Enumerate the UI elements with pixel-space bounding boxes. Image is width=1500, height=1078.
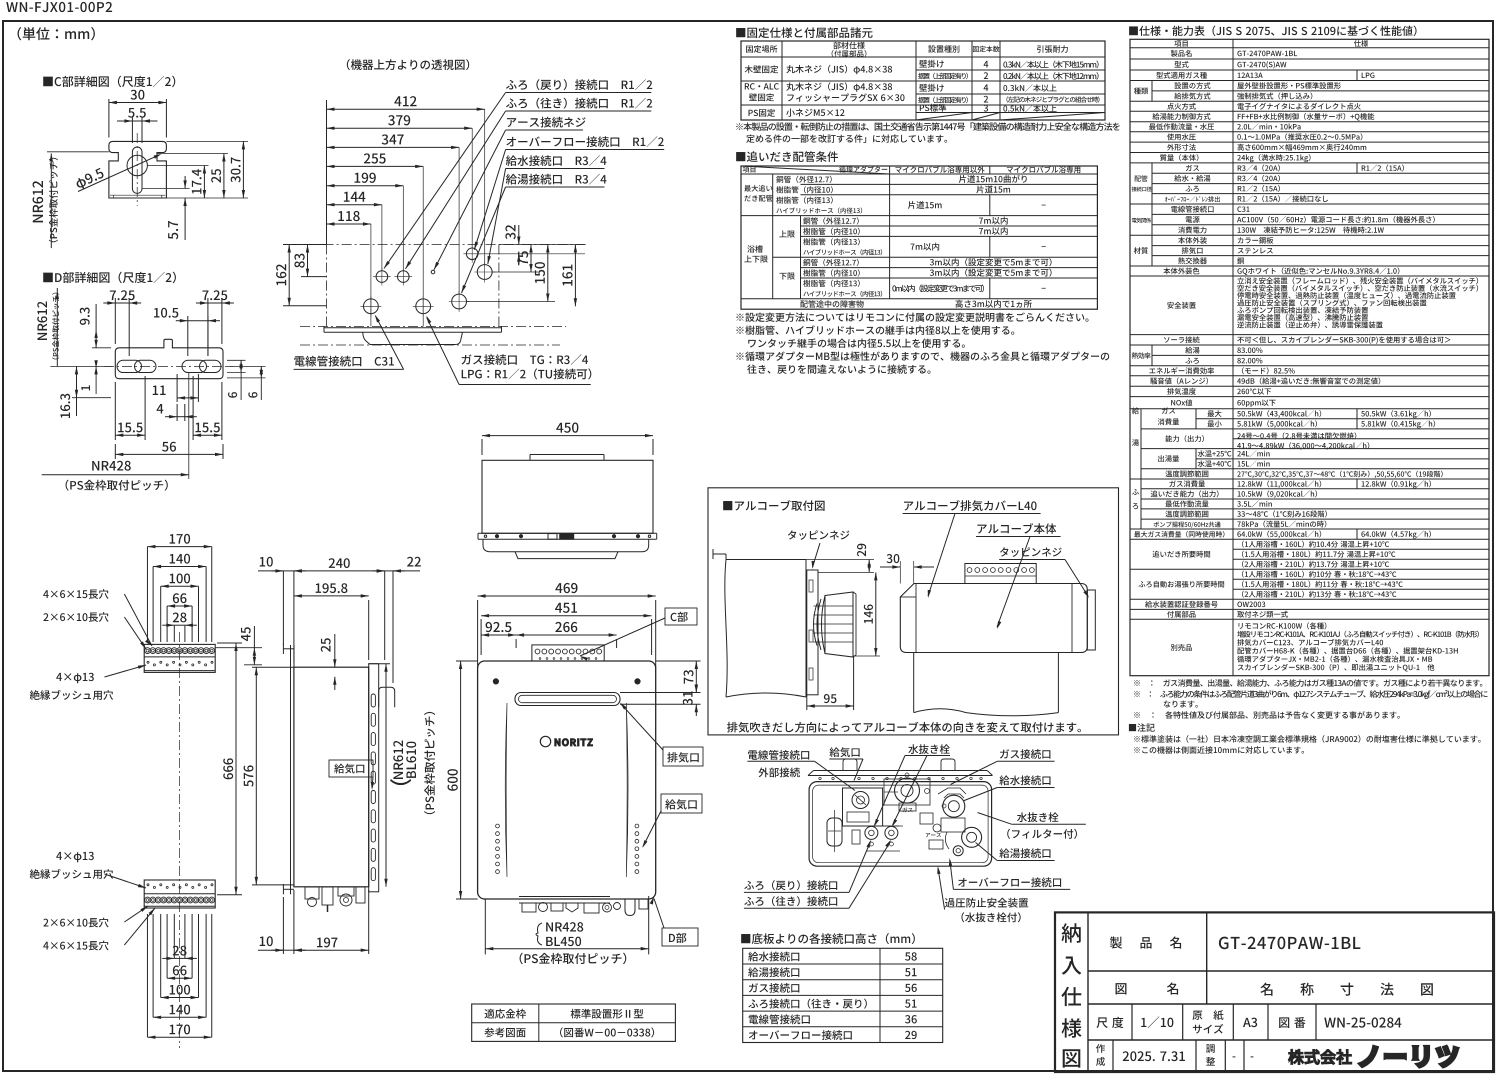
top view body outline <box>288 244 586 246</box>
dim 666 <box>217 642 242 644</box>
spec table title <box>1129 26 1416 37</box>
dim 576 <box>252 666 294 668</box>
alcove right tab <box>1087 590 1095 650</box>
side view wall <box>290 645 292 894</box>
title block vertical category <box>1087 912 1089 1072</box>
front view bottom fittings <box>519 896 610 898</box>
alcove lower wall <box>913 653 915 713</box>
title block frame <box>1055 912 1494 1072</box>
D-detail dim 4 <box>176 404 178 421</box>
front view D-part label <box>662 928 698 946</box>
alcove cover label <box>904 500 1037 511</box>
spec max gas row <box>1134 531 1224 538</box>
title block rows <box>1088 970 1494 972</box>
piping pipe-type cells <box>776 176 832 183</box>
front view dim 451 <box>480 619 482 655</box>
top plate screw holes <box>145 648 151 654</box>
front view side vent dots <box>496 824 500 828</box>
front view exhaust label <box>663 747 703 766</box>
piping table frame <box>741 166 1097 309</box>
piping table title <box>736 151 838 162</box>
top plate body <box>144 644 215 672</box>
D-detail NR612 label <box>37 302 47 340</box>
front view C-part label <box>665 608 697 625</box>
spec capacity row <box>1165 435 1204 442</box>
spec cert row <box>1145 601 1217 608</box>
top view horizontal dims <box>326 100 328 245</box>
piping table header diagonal <box>741 166 890 174</box>
heights table <box>743 948 943 1042</box>
bottom view furo return label <box>744 880 837 890</box>
fixation row wood wall <box>745 65 778 73</box>
alcove dim 29 <box>806 559 874 561</box>
spec group shurui <box>1151 81 1153 102</box>
alcove dim 30 <box>899 561 901 584</box>
alcove left wall <box>713 553 726 555</box>
piping last row <box>800 300 863 308</box>
spec reheat time rows <box>1152 551 1210 558</box>
bottom plate dims <box>173 914 175 958</box>
D-detail dim 15.5 left <box>114 382 116 440</box>
front view cabinet <box>478 661 656 899</box>
fixation row PS <box>748 109 775 117</box>
alcove caption <box>727 722 1081 733</box>
plan view body <box>482 460 653 533</box>
alcove mount plate <box>807 570 818 695</box>
front view top bracket <box>532 645 604 661</box>
D-detail centerline <box>104 365 233 367</box>
bottom view drain label <box>908 744 950 754</box>
front view dims 92.5 and 266 <box>515 639 517 648</box>
D-detail dim 9.3 <box>92 347 111 349</box>
spec row solar <box>1164 336 1200 343</box>
title block scale row <box>1131 1004 1133 1040</box>
title block fig name row <box>1116 982 1179 994</box>
unit note <box>18 27 95 40</box>
C-detail keyhole slot <box>132 147 142 193</box>
D-detail dims 6 6 <box>227 359 246 361</box>
D-detail dim 16.3 <box>76 366 78 416</box>
bottom view misc parts <box>920 813 933 824</box>
C-detail dim 30 <box>108 99 110 138</box>
C-detail dim 5.5 <box>131 117 133 143</box>
bottom view conduit label <box>748 750 809 760</box>
spec row body color <box>1163 268 1199 275</box>
alcove dim 146 <box>853 655 880 657</box>
spec group material <box>1151 235 1153 266</box>
spec row model <box>1175 61 1189 68</box>
D-detail slots left pair <box>117 360 142 372</box>
D-detail dim 11 <box>176 374 178 402</box>
C-detail phi 9.5 label <box>74 168 105 192</box>
top view callout gas <box>462 354 589 365</box>
top view callout earth screw <box>507 117 586 128</box>
spec group thermal eff <box>1151 345 1153 366</box>
side view louver slots <box>371 694 375 707</box>
D-detail slots right pair <box>182 360 207 372</box>
alcove box frame <box>708 488 1119 735</box>
front view dim 600 <box>456 660 478 662</box>
front view air inlet label <box>661 794 702 813</box>
bottom view air label <box>830 747 860 757</box>
bottom view drain cocks <box>865 826 878 839</box>
top view holes <box>376 271 388 283</box>
plan view center hatch <box>560 534 574 540</box>
spec row product name <box>1171 50 1192 57</box>
front view pitch dim <box>484 898 486 954</box>
fixation note <box>736 122 1120 131</box>
spec furo group <box>1140 479 1142 529</box>
front view screws <box>493 679 498 684</box>
spec group piping diameters <box>1151 163 1153 204</box>
side view dim 195.8 <box>368 600 370 660</box>
alcove dim 95 <box>806 695 808 710</box>
fixation diagonal blanks <box>916 113 972 121</box>
bottom view external label <box>758 768 800 778</box>
front view NR428 BL450 labels <box>536 923 542 945</box>
front view noritz logo <box>540 736 550 746</box>
D-detail dim 15.5 right <box>192 376 194 440</box>
bottom view water inlet label <box>999 775 1050 785</box>
C-detail bracket body <box>109 141 166 198</box>
side view bottom dims <box>282 897 284 954</box>
alcove top bracket <box>965 564 1036 584</box>
bottom view overflow label <box>958 877 1061 887</box>
top view callout furo supply <box>506 98 652 109</box>
spec table vertical label line <box>1232 39 1234 675</box>
bottom view top flange <box>814 770 988 772</box>
spec row gas type <box>1156 72 1207 79</box>
side view dim 45 <box>215 647 262 649</box>
fixation table title <box>736 27 872 38</box>
top view right dims <box>478 253 585 255</box>
bottom view furo supply label <box>744 896 837 906</box>
alcove body label <box>977 523 1056 534</box>
piping rows lines <box>741 173 1097 175</box>
D-detail dim 7.25 right <box>207 298 209 356</box>
top view callout conduit <box>294 356 394 367</box>
title block product row <box>1110 936 1181 948</box>
top view title <box>347 59 469 70</box>
side view exhaust bump <box>379 687 395 707</box>
bottom plate labels <box>56 852 94 862</box>
C-detail dim 5.7 <box>142 187 190 189</box>
bottom view water inlet valve <box>943 795 965 817</box>
plan view dim 450 <box>481 439 483 455</box>
top view bottom flange <box>324 327 502 329</box>
front view crease lines <box>505 703 507 877</box>
D-detail title <box>43 272 176 284</box>
top plate hole labels <box>43 589 108 599</box>
top view callout hot water <box>506 174 607 185</box>
bottom plate small holes <box>147 884 149 886</box>
bottom view filter drain label <box>1017 812 1059 822</box>
front view dim 469 <box>477 600 479 668</box>
D-detail dim 10.5 <box>187 316 189 356</box>
side view bottom pipes <box>305 887 319 899</box>
top view callout overflow <box>506 136 663 147</box>
plan view bottom pan <box>483 539 649 552</box>
alcove louver cover side <box>825 592 853 657</box>
alcove tapping screw label right <box>1000 547 1062 557</box>
spec group electric <box>1151 204 1153 235</box>
spec row safety devices <box>1167 302 1196 309</box>
fixation row RC ALC <box>745 83 779 89</box>
spec table outer frame <box>1130 39 1489 675</box>
bottom view electrical box <box>843 788 883 826</box>
D-detail dim 1 <box>95 366 97 394</box>
bottom plate screw holes <box>145 897 151 903</box>
D-detail NR428 label <box>188 372 190 479</box>
bottom view inner details <box>884 779 930 805</box>
spec kyuto group <box>1140 409 1142 479</box>
spec outflow rows <box>1158 455 1179 462</box>
bottom view gas connection <box>895 778 920 803</box>
side view pitch labels <box>393 741 403 779</box>
spec optional parts row <box>1171 644 1192 651</box>
bottom view gas label <box>1000 749 1050 759</box>
heights table title <box>741 933 915 944</box>
spec auto fill rows <box>1139 581 1225 588</box>
frame type table <box>472 1004 676 1041</box>
spec row energy <box>1149 367 1214 374</box>
top view left dims <box>283 244 327 246</box>
piping notes <box>736 312 1088 321</box>
top plate dims <box>146 547 148 642</box>
alcove right body <box>900 584 1087 653</box>
bottom view left opening <box>827 818 842 846</box>
fixation table <box>741 41 1105 120</box>
plates center line <box>179 632 181 1048</box>
bottom view pressure relief label <box>945 898 1028 908</box>
piping left labels <box>744 185 772 192</box>
C-detail right dims <box>166 140 248 142</box>
top view callout furo return <box>506 79 652 90</box>
bottom view overflow <box>953 846 963 856</box>
side view top dims <box>282 571 284 645</box>
side view back strip <box>369 664 379 892</box>
title block date row <box>1112 1040 1114 1072</box>
spec header row <box>1174 40 1187 46</box>
front view exhaust louver <box>515 693 620 706</box>
side view cabinet <box>294 667 369 887</box>
bottom view top tabs <box>843 759 857 771</box>
D-detail dim 56 <box>114 444 116 459</box>
D-detail plate body <box>115 339 223 378</box>
C-detail title <box>43 76 175 88</box>
C-detail NR612 label <box>33 181 44 222</box>
alcove tapping screw label left <box>788 530 850 540</box>
plan view flange <box>478 532 657 534</box>
side view air inlet label <box>329 760 373 777</box>
bottom view body <box>809 782 992 867</box>
bottom view flange screws <box>819 777 821 779</box>
alcove title <box>723 500 824 511</box>
plan view flange screws <box>495 535 498 538</box>
piping values <box>959 175 1027 183</box>
spec row ignition <box>1167 103 1196 110</box>
spec remark title <box>1129 723 1155 731</box>
noritz company logo <box>1288 1049 1351 1064</box>
spec notes <box>1134 679 1482 686</box>
fixation table header texts <box>746 45 777 52</box>
side view dim 25 <box>334 634 336 667</box>
bottom view hot water label <box>999 848 1050 858</box>
top view callout water inlet <box>506 155 607 166</box>
bottom view hot water valve <box>962 827 982 847</box>
sheet number text <box>6 2 112 12</box>
front view dims 73 31 <box>656 660 701 662</box>
top plate small holes <box>147 661 149 663</box>
bottom plate body <box>144 880 215 908</box>
D-detail dim 7.25 left <box>114 298 116 344</box>
spec table horizontal lines <box>1130 47 1489 49</box>
